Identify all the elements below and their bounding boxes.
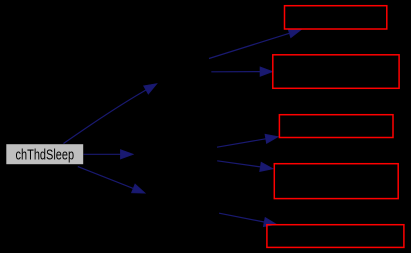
svg-text:chThdSleep: chThdSleep (16, 148, 75, 164)
